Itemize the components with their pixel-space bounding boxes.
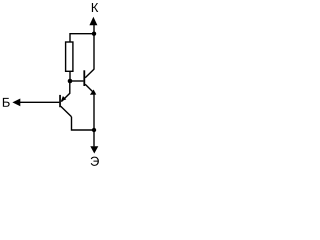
terminal E arrow [90,146,98,153]
terminal B lead wire [20,101,59,103]
terminal K arrow [89,17,97,26]
transistor VT2 base bar [83,70,85,86]
label E [91,157,99,166]
wire node A to base of VT2 [70,80,83,82]
transistor VT1 collector [61,106,72,117]
transistor VT1 base bar [59,95,61,107]
node A junction dot [68,79,73,84]
transistor VT2 emitter [85,84,94,93]
resistor R1 [66,42,73,71]
transistor VT2 emitter arrow (points down at wire bend) [90,90,96,95]
transistor VT2 collector [85,69,94,78]
terminal E lead wire [93,93,95,147]
node E junction dot [92,128,96,132]
node K junction dot [92,32,96,36]
wire from node K to resistor top [70,34,94,42]
transistor VT1 emitter arrow (points into base bar) [61,96,66,101]
terminal K lead wire [93,24,95,69]
wire VT1 collector to node E [72,117,95,130]
wire resistor bottom to node A [69,71,71,81]
terminal B arrow [12,99,20,107]
transistor VT1 emitter [61,81,70,102]
label B [3,98,10,107]
label K [92,3,98,12]
